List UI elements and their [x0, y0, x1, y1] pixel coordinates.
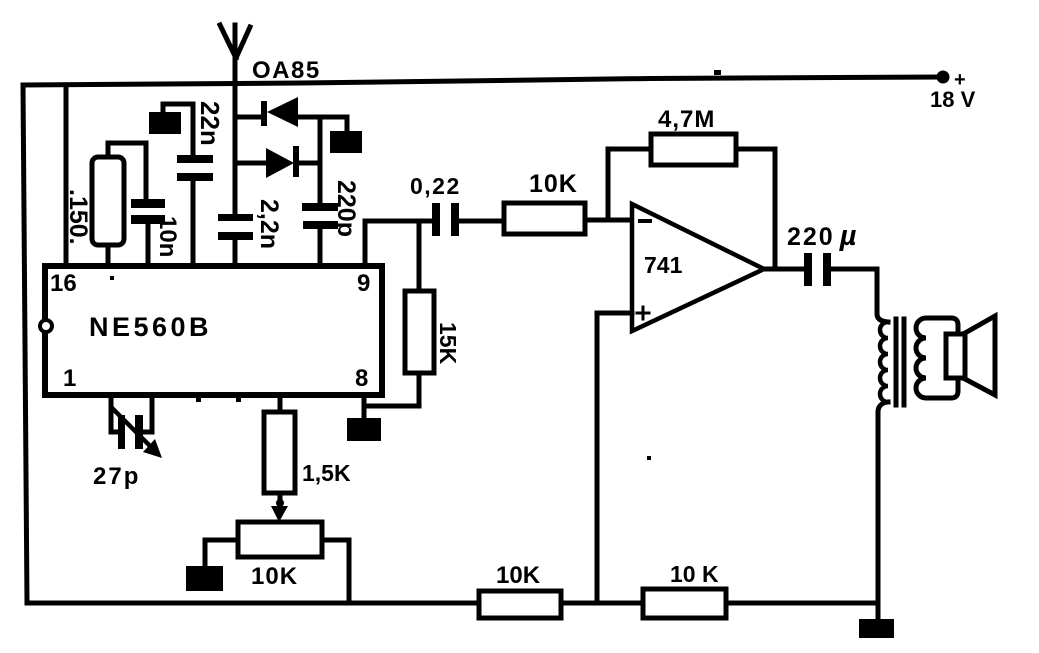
capacitor 27p trimmer: [111, 395, 118, 432]
svg-text:4,7M: 4,7M: [658, 106, 715, 133]
IC U1 NE560B: [45, 266, 382, 395]
svg-text:18 V: 18 V: [930, 87, 976, 112]
resistor 10K input: [504, 203, 585, 234]
svg-text:10K: 10K: [529, 170, 578, 198]
transformer T1 primary: [877, 269, 888, 322]
svg-text:0,22: 0,22: [410, 173, 461, 199]
wire pin16 to supply rail: [64, 85, 69, 266]
wire output: [764, 267, 805, 272]
resistor 150: [108, 143, 146, 199]
svg-text:220µ: 220µ: [787, 220, 858, 252]
diode OA85 upper: [235, 115, 263, 120]
wire feedback left: [608, 149, 651, 220]
svg-text:10n: 10n: [154, 216, 181, 257]
transformer core: [896, 319, 904, 405]
wire top supply rail to +18V: [23, 77, 943, 85]
antenna: [233, 25, 238, 215]
svg-text:220p: 220p: [332, 180, 360, 237]
resistor 15K: [417, 221, 422, 291]
svg-text:NE560B: NE560B: [89, 312, 212, 342]
capacitor 220p: [302, 203, 338, 211]
op-amp U2 741: [632, 204, 764, 331]
ground bottom right: [859, 619, 894, 638]
ground pin8: [362, 395, 367, 419]
svg-text:1: 1: [63, 365, 76, 392]
ground near 22n: [163, 104, 193, 155]
resistor 4.7M: [651, 134, 736, 165]
svg-text:OA85: OA85: [252, 57, 321, 84]
speaker LS1: [946, 334, 965, 378]
svg-text:8: 8: [355, 365, 368, 392]
ground near diodes: [345, 117, 350, 132]
speck below op-amp: [647, 456, 651, 460]
resistor 1.5K: [278, 395, 283, 412]
svg-text:22n: 22n: [195, 101, 225, 146]
potentiometer 10K: [238, 522, 322, 557]
resistor 10K bottom right: [643, 589, 726, 618]
svg-text:1,5K: 1,5K: [302, 460, 351, 486]
svg-text:16: 16: [50, 270, 77, 297]
node +18V terminal dot: [937, 71, 950, 84]
svg-text:15K: 15K: [435, 322, 461, 365]
speck near pin 16: [110, 276, 114, 280]
svg-text:10K: 10K: [251, 563, 298, 590]
wire bottom rail: [27, 601, 878, 606]
wire plus input: [597, 313, 632, 603]
resistor 10K bottom left: [479, 591, 561, 618]
capacitor 22n: [177, 155, 213, 163]
svg-text:10 K: 10 K: [670, 561, 719, 587]
transformer secondary: [916, 318, 958, 398]
diode OA85 lower: [235, 161, 267, 166]
wire left outer vertical: [23, 85, 27, 603]
capacitor 220u: [804, 253, 812, 286]
capacitor 0.22: [432, 203, 440, 236]
svg-text:10K: 10K: [496, 562, 541, 589]
ground pot left: [186, 566, 223, 591]
svg-text:2,2n: 2,2n: [255, 199, 283, 249]
svg-text:9: 9: [357, 270, 370, 297]
svg-text:27p: 27p: [93, 463, 140, 490]
svg-text:.150.: .150.: [64, 189, 92, 245]
wire diodes to 220p: [318, 117, 323, 204]
svg-text:741: 741: [644, 252, 683, 278]
wire pin9 to 0.22: [365, 221, 434, 266]
capacitor 2.2n: [218, 214, 253, 221]
wire feedback right: [736, 149, 775, 269]
capacitor 10n: [131, 199, 165, 208]
speck on supply rail: [714, 70, 721, 75]
